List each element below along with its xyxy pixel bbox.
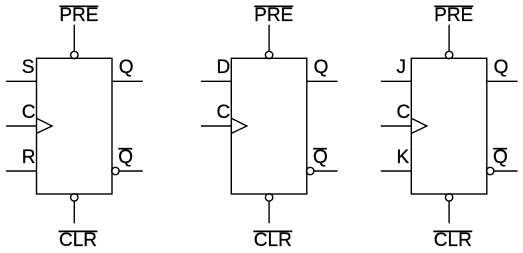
PRE wire U2 (D) — [268, 25, 270, 52]
output Q-bar wire U1 (S-R) — [119, 170, 143, 172]
output Q-bar bubble U3 (J-K) — [487, 167, 494, 174]
svg-text:Q: Q — [313, 147, 328, 168]
CLR wire U2 (D) — [268, 201, 270, 223]
svg-text:C: C — [22, 102, 36, 123]
PRE label U2 (D) — [254, 5, 293, 26]
output Q-bar label U1 (S-R) — [118, 147, 133, 168]
svg-text:PRE: PRE — [434, 5, 473, 26]
svg-text:R: R — [22, 147, 36, 168]
CLR bubble U3 (J-K) — [445, 194, 452, 201]
svg-text:CLR: CLR — [59, 230, 97, 251]
svg-text:J: J — [397, 57, 407, 78]
clock C wire U1 (S-R) — [6, 125, 36, 127]
CLR label U3 (J-K) — [433, 230, 472, 251]
PRE bubble U2 (D) — [265, 51, 272, 58]
input S wire U1 (S-R) — [6, 80, 36, 82]
output Q-bar wire U2 (D) — [314, 170, 338, 172]
output Q-bar bubble U2 (D) — [307, 167, 314, 174]
svg-text:Q: Q — [314, 57, 329, 78]
CLR bubble U2 (D) — [265, 194, 272, 201]
output Q-bar wire U3 (J-K) — [494, 170, 518, 172]
input J wire U3 (J-K) — [381, 80, 411, 82]
output Q-bar bubble U1 (S-R) — [112, 167, 119, 174]
output Q wire U3 (J-K) — [487, 80, 518, 82]
svg-text:S: S — [22, 57, 35, 78]
svg-text:CLR: CLR — [434, 230, 472, 251]
PRE wire U1 (S-R) — [73, 25, 75, 52]
svg-text:C: C — [397, 102, 411, 123]
svg-text:PRE: PRE — [59, 5, 98, 26]
PRE wire U3 (J-K) — [448, 25, 450, 52]
PRE bubble U1 (S-R) — [71, 51, 78, 58]
CLR label U2 (D) — [253, 230, 292, 251]
PRE label U1 (S-R) — [59, 5, 98, 26]
input K wire U3 (J-K) — [381, 170, 411, 172]
clock edge triangle U1 (S-R) — [37, 118, 53, 133]
flip-flop U1 (S-R) body — [37, 58, 113, 194]
clock C wire U3 (J-K) — [381, 125, 411, 127]
CLR bubble U1 (S-R) — [71, 194, 78, 201]
clock edge triangle U2 (D) — [231, 118, 247, 133]
clock edge triangle U3 (J-K) — [411, 118, 427, 133]
svg-text:CLR: CLR — [254, 230, 292, 251]
svg-text:Q: Q — [493, 147, 508, 168]
svg-text:Q: Q — [119, 57, 134, 78]
svg-text:Q: Q — [494, 57, 509, 78]
svg-text:Q: Q — [118, 147, 133, 168]
svg-text:C: C — [217, 102, 231, 123]
svg-text:PRE: PRE — [254, 5, 293, 26]
PRE label U3 (J-K) — [434, 5, 473, 26]
output Q wire U1 (S-R) — [112, 80, 143, 82]
clock C wire U2 (D) — [201, 125, 231, 127]
flip-flop U2 (D) body — [231, 58, 306, 194]
svg-text:K: K — [397, 147, 410, 168]
input D wire U2 (D) — [201, 80, 231, 82]
CLR label U1 (S-R) — [59, 230, 98, 251]
output Q-bar label U3 (J-K) — [493, 147, 508, 168]
input R wire U1 (S-R) — [6, 170, 36, 172]
CLR wire U1 (S-R) — [73, 201, 75, 223]
flip-flop U3 (J-K) body — [411, 58, 487, 194]
PRE bubble U3 (J-K) — [445, 51, 452, 58]
output Q-bar label U2 (D) — [313, 147, 328, 168]
output Q wire U2 (D) — [307, 80, 338, 82]
svg-text:D: D — [217, 57, 231, 78]
CLR wire U3 (J-K) — [448, 201, 450, 223]
